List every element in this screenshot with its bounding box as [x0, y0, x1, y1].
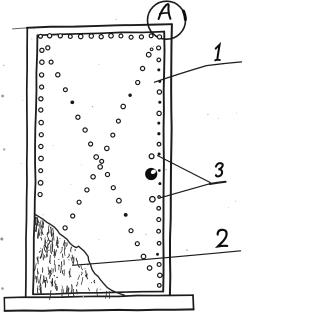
rivet diagonal TL-BR — [46, 46, 50, 50]
lock hole filled — [145, 168, 157, 180]
rubble boundary line — [35, 215, 124, 296]
label 1 — [216, 45, 220, 59]
outer frame top edge — [13, 28, 27, 29]
rubble hatch texture — [48, 229, 49, 234]
detail circle A — [148, 1, 186, 39]
scan specks — [1, 95, 4, 98]
outer frame left edge — [26, 28, 28, 297]
leader line 1 — [155, 62, 242, 82]
rivet diagonal TR-BL — [146, 52, 151, 57]
paper speckle — [98, 63, 101, 66]
rivet column right — [157, 46, 161, 50]
leader line 2 — [73, 251, 241, 265]
inner frame bottom edge — [33, 292, 163, 295]
rivet column left — [40, 48, 44, 52]
letter A — [159, 4, 171, 19]
inner frame left edge — [33, 35, 37, 294]
label 2 — [218, 230, 228, 247]
leader lines 3 — [158, 156, 211, 183]
inner frame top edge — [37, 32, 164, 36]
label 3 — [216, 163, 223, 176]
base plate — [4, 295, 193, 298]
inner frame right edge — [163, 32, 164, 292]
hole upper (item 3) — [149, 154, 154, 159]
rivet row top — [39, 34, 43, 38]
outer frame right edge — [170, 24, 172, 295]
hole lower (item 3) — [150, 197, 155, 202]
